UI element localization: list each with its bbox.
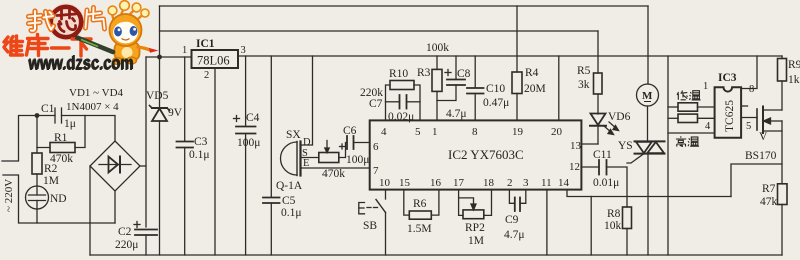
thermistor RT low	[668, 103, 715, 111]
svg-text:~ 220V: ~ 220V	[3, 179, 15, 212]
mascot mouth	[122, 39, 130, 41]
mascot legs	[113, 58, 123, 65]
wire bridge DC minus	[89, 166, 91, 255]
svg-text:0.02μ: 0.02μ	[388, 111, 414, 123]
wire bridge DC plus	[140, 165, 146, 167]
svg-text:VD6: VD6	[608, 111, 631, 123]
svg-text:C10: C10	[486, 83, 505, 95]
wire ground drop x591	[590, 197, 592, 256]
svg-text:IC1: IC1	[196, 38, 215, 50]
node A junction	[35, 113, 40, 118]
svg-text:ND: ND	[50, 193, 67, 205]
resistor R7	[778, 184, 788, 255]
svg-text:13: 13	[570, 140, 582, 152]
switch SB	[359, 190, 386, 255]
resistor R6	[404, 190, 439, 220]
IC2 YX7603C	[370, 120, 582, 189]
wire source to R7 and ground tee	[731, 121, 782, 197]
svg-text:1k: 1k	[788, 74, 800, 86]
svg-text:1M: 1M	[43, 175, 59, 187]
resistor R2	[32, 148, 42, 187]
svg-text:0.1μ: 0.1μ	[281, 207, 302, 219]
svg-text:E: E	[303, 158, 309, 169]
svg-text:R8: R8	[607, 208, 621, 220]
wire top line0	[160, 5, 649, 7]
wire pin D to rail2	[301, 56, 313, 145]
svg-text:www.dzsc.com: www.dzsc.com	[27, 54, 133, 75]
capacitor C2	[134, 222, 157, 256]
svg-text:8: 8	[472, 126, 478, 138]
svg-text:R7: R7	[762, 183, 776, 195]
resistor R9	[778, 56, 787, 110]
triac YS	[627, 141, 665, 255]
svg-text:SX: SX	[286, 129, 301, 141]
resistor 470k (source load)	[319, 141, 347, 163]
IC1 78L06	[192, 50, 239, 255]
svg-text:M: M	[642, 90, 653, 102]
wire DC plus column	[145, 57, 147, 227]
svg-text:78L06: 78L06	[197, 54, 230, 68]
svg-text:C11: C11	[593, 149, 612, 161]
svg-text:0.1μ: 0.1μ	[189, 149, 210, 161]
MOSFET V BS170	[757, 107, 782, 134]
wire IC3 pin5 to gate	[741, 117, 757, 119]
svg-text:IC3: IC3	[718, 72, 737, 84]
svg-text:R1: R1	[54, 132, 68, 144]
svg-text:9V: 9V	[168, 107, 183, 119]
svg-text:17: 17	[453, 177, 465, 189]
IC3 TC625	[715, 56, 757, 138]
resistor R8	[623, 207, 632, 255]
svg-text:C2: C2	[118, 226, 132, 238]
svg-text:4: 4	[705, 121, 711, 132]
svg-text:R4: R4	[525, 67, 539, 79]
svg-text:R6: R6	[413, 198, 427, 210]
motor M	[637, 6, 659, 141]
svg-text:1μ: 1μ	[64, 118, 76, 130]
svg-text:220μ: 220μ	[115, 239, 138, 251]
resistor R4	[512, 6, 522, 120]
wire IC2 pin13	[581, 143, 598, 145]
svg-text:2: 2	[507, 177, 513, 189]
LED VD6	[590, 114, 619, 145]
wire pin E to IC2 pin7	[301, 167, 370, 169]
svg-text:1N4007 × 4: 1N4007 × 4	[66, 101, 119, 113]
svg-text:R9: R9	[788, 59, 800, 71]
magnifier handle	[77, 38, 113, 53]
wire pin20 riser	[558, 56, 560, 120]
triac gate wire	[627, 154, 644, 163]
svg-text:14: 14	[558, 177, 570, 189]
capacitor C3	[177, 57, 194, 255]
svg-text:100μ: 100μ	[346, 154, 369, 166]
wire thermistor column	[667, 56, 669, 255]
char yi	[52, 46, 70, 49]
resistor R1	[37, 116, 85, 153]
wire thermistor to IC3 bottom stub	[668, 132, 715, 134]
svg-text:Q-1A: Q-1A	[276, 180, 303, 192]
wire pin11 ground	[546, 190, 548, 255]
svg-text:1: 1	[182, 45, 187, 56]
svg-text:19: 19	[512, 126, 524, 138]
capacitor C9	[509, 190, 525, 211]
zener diode VD5 column	[150, 57, 170, 255]
capacitor C7	[386, 95, 421, 109]
svg-text:0.01μ: 0.01μ	[593, 177, 619, 189]
svg-text:1: 1	[703, 81, 708, 92]
svg-text:470k: 470k	[322, 168, 345, 180]
mascot body	[115, 42, 140, 61]
svg-text:BS170: BS170	[745, 150, 777, 162]
char wei	[4, 36, 23, 55]
svg-text:100k: 100k	[426, 42, 449, 54]
wire IC3 pin8	[741, 56, 757, 89]
capacitor C1	[37, 108, 115, 141]
svg-text:C9: C9	[505, 214, 519, 226]
svg-text:RP2: RP2	[465, 222, 485, 234]
char pian (piece)	[86, 8, 105, 30]
ground bottom rail	[90, 254, 782, 256]
wire pin14 ground run	[567, 190, 731, 197]
sensor SX Q-1A	[281, 56, 370, 176]
svg-text:D: D	[303, 137, 311, 148]
svg-text:47k: 47k	[760, 196, 778, 208]
capacitor C8	[437, 56, 465, 101]
svg-text:20M: 20M	[524, 83, 546, 95]
gate arrow	[326, 141, 328, 150]
mascot eyes	[114, 27, 122, 37]
wire left feed column	[159, 6, 161, 57]
svg-text:0.47μ: 0.47μ	[483, 97, 509, 109]
char zhao (find)	[29, 11, 54, 31]
svg-text:6: 6	[373, 141, 379, 153]
bridge rectifier VD1-VD4	[90, 141, 146, 255]
svg-text:C8: C8	[457, 68, 471, 80]
mascot head	[110, 14, 142, 46]
watermark group	[4, 1, 159, 75]
capacitor C4	[234, 56, 256, 255]
svg-text:7: 7	[373, 165, 379, 177]
svg-text:18: 18	[483, 177, 495, 189]
resistor R10	[386, 81, 421, 121]
label gaotemp (high temp) chinese	[676, 136, 699, 146]
svg-text:5: 5	[746, 121, 751, 132]
char ku	[27, 35, 49, 56]
svg-text:V: V	[759, 131, 768, 143]
neon lamp ND	[26, 186, 49, 223]
svg-text:R2: R2	[44, 163, 58, 175]
svg-text:IC2 YX7603C: IC2 YX7603C	[448, 147, 524, 162]
svg-text:R5: R5	[577, 65, 591, 77]
svg-text:12: 12	[569, 161, 580, 173]
wire pin S	[301, 157, 319, 159]
wire IC3 mid stub	[741, 105, 747, 107]
text weiku yixia (red)	[4, 35, 91, 57]
svg-text:VD1 ~ VD4: VD1 ~ VD4	[69, 87, 124, 99]
wire IC1 pin2 ground	[214, 68, 216, 255]
svg-text:10: 10	[379, 177, 391, 189]
svg-text:VD5: VD5	[146, 90, 169, 102]
svg-text:11: 11	[541, 177, 552, 189]
capacitor C5	[263, 56, 280, 255]
wire AC terminal 2	[3, 175, 115, 223]
resistor R5	[594, 31, 603, 114]
svg-text:C7: C7	[369, 98, 383, 110]
svg-text:SB: SB	[363, 220, 377, 232]
svg-text:4.7μ: 4.7μ	[504, 229, 525, 241]
svg-text:TC625: TC625	[724, 100, 736, 132]
svg-text:3: 3	[523, 177, 529, 189]
wire rail2 +6V	[238, 55, 782, 57]
potentiometer RP2	[459, 190, 492, 219]
mascot right arm with red dart	[138, 47, 150, 50]
svg-text:C6: C6	[343, 125, 357, 137]
node IC1-in junction	[157, 55, 162, 60]
svg-text:10k: 10k	[604, 220, 622, 232]
wire rail1	[160, 30, 599, 32]
char xin (chip) inside ring	[57, 10, 76, 32]
svg-text:20: 20	[551, 126, 563, 138]
svg-text:3: 3	[241, 45, 246, 56]
svg-text:R3: R3	[417, 67, 431, 79]
thermistor RT high	[668, 114, 715, 122]
svg-text:C3: C3	[194, 136, 208, 148]
svg-text:5: 5	[415, 126, 421, 138]
wire bridge AC bottom	[114, 191, 116, 223]
svg-text:C1: C1	[41, 103, 55, 115]
svg-text:R10: R10	[389, 68, 408, 80]
svg-text:8: 8	[749, 84, 754, 95]
svg-text:C4: C4	[246, 112, 260, 124]
svg-text:YS: YS	[618, 140, 633, 152]
capacitor C10	[467, 56, 484, 120]
magnifier ring	[49, 5, 84, 40]
resistor R3	[432, 56, 442, 120]
svg-text:1M: 1M	[468, 235, 484, 247]
svg-text:100μ: 100μ	[237, 137, 260, 149]
svg-text:3k: 3k	[578, 79, 590, 91]
char xia	[72, 39, 91, 56]
svg-text:16: 16	[430, 177, 442, 189]
svg-text:4: 4	[381, 126, 387, 138]
svg-text:1: 1	[432, 126, 438, 138]
capacitor C11 on pin12	[581, 160, 627, 207]
svg-text:2: 2	[204, 70, 209, 81]
mascot antennae	[108, 1, 149, 21]
wire AC terminal 1	[2, 116, 37, 162]
wire IC1 input	[146, 56, 192, 58]
svg-text:C5: C5	[282, 195, 296, 207]
label ditep (low temp) chinese	[677, 91, 701, 100]
svg-text:15: 15	[399, 177, 411, 189]
capacitor C6	[340, 136, 370, 149]
svg-text:4.7μ: 4.7μ	[446, 108, 467, 120]
svg-text:1.5M: 1.5M	[407, 223, 432, 235]
